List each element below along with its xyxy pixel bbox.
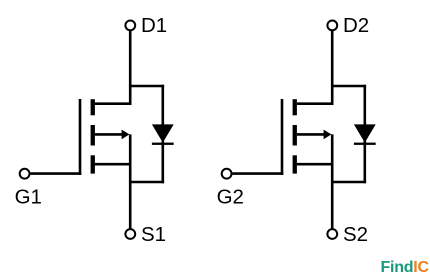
- channel bar middle Q2 (body): [293, 125, 297, 146]
- wire diode branch bottom Q2: [331, 181, 366, 184]
- wire diode branch vertical: [162, 85, 165, 184]
- wire diode branch top Q2: [331, 85, 366, 88]
- wire top channel to drain: [95, 102, 132, 105]
- wire gate G2: [233, 172, 284, 175]
- channel bar bottom (source side): [91, 155, 95, 173]
- gate line G2: [281, 99, 284, 175]
- transistor Q2 (right P-channel MOSFET): [217, 14, 376, 246]
- wire gate G1: [31, 172, 82, 175]
- terminal G1 circle: [20, 169, 30, 179]
- FindIC logo: [381, 259, 430, 272]
- body diode cathode bar Q2: [354, 143, 376, 145]
- svg-text:FindIC: FindIC: [381, 259, 430, 272]
- transistor Q1 (left P-channel MOSFET): [15, 14, 174, 246]
- svg-text:S2: S2: [343, 223, 368, 246]
- svg-text:S1: S1: [141, 223, 166, 246]
- terminal S1 circle: [125, 229, 135, 239]
- channel bar top Q2 (drain side): [293, 99, 297, 115]
- wire source vertical S1: [129, 134, 132, 229]
- wire body arrow line: [95, 133, 123, 136]
- wire diode branch bottom: [129, 181, 164, 184]
- wire diode branch top: [129, 85, 164, 88]
- arrowhead body (points right): [122, 130, 130, 140]
- body diode D1-S1 (anode top, triangle): [152, 124, 174, 142]
- svg-text:D1: D1: [141, 14, 167, 37]
- wire diode branch vertical Q2: [363, 85, 366, 184]
- terminal D1 circle: [125, 21, 135, 31]
- gate line G1: [79, 99, 82, 175]
- wire top channel to drain (Q2): [297, 102, 334, 105]
- wire drain vertical D2: [331, 31, 334, 105]
- body diode D2-S2 (anode top, triangle): [354, 124, 376, 142]
- terminal D2 circle: [327, 21, 337, 31]
- body diode cathode bar: [152, 143, 174, 145]
- svg-text:G2: G2: [217, 186, 244, 209]
- arrowhead body Q2 (points right): [324, 130, 332, 140]
- terminal S2 circle: [327, 229, 337, 239]
- svg-text:D2: D2: [343, 14, 369, 37]
- wire source vertical S2: [331, 134, 334, 229]
- channel bar bottom Q2 (source side): [293, 155, 297, 173]
- wire body arrow line Q2: [297, 133, 325, 136]
- wire drain vertical D1: [129, 31, 132, 105]
- wire bottom channel to source: [95, 163, 132, 166]
- channel bar top (drain side): [91, 99, 95, 115]
- channel bar middle (body): [91, 125, 95, 146]
- svg-text:G1: G1: [15, 186, 42, 209]
- terminal G2 circle: [222, 169, 232, 179]
- wire bottom channel to source (Q2): [297, 163, 334, 166]
